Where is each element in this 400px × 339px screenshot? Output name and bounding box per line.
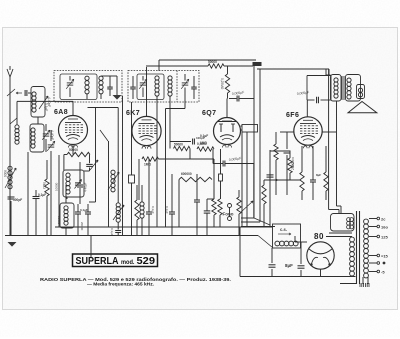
svg-text:500pF: 500pF [13,198,22,202]
svg-text:6Q7: 6Q7 [202,110,216,117]
svg-text:50000: 50000 [69,148,78,152]
svg-text:16o: 16o [381,224,388,229]
svg-text:0,1µF: 0,1µF [165,206,169,214]
svg-text:125: 125 [381,234,388,239]
svg-text:Fono: Fono [223,212,234,217]
svg-text:50000: 50000 [208,60,217,64]
svg-text:0,1µF: 0,1µF [44,103,48,111]
svg-text:0,1µF: 0,1µF [80,208,88,212]
svg-text:4-40pF: 4-40pF [84,182,88,192]
svg-text:8µF: 8µF [285,263,293,268]
svg-text:c.s.: c.s. [280,227,287,232]
svg-text:8µF: 8µF [316,173,321,177]
svg-text:=15: =15 [381,253,389,258]
svg-text:0,1µF: 0,1µF [110,228,114,236]
svg-text:mod.: mod. [121,259,135,266]
svg-text:10000: 10000 [57,216,61,225]
svg-text:1MΩ: 1MΩ [144,163,151,167]
svg-text:6F6: 6F6 [286,112,299,119]
svg-text:600000: 600000 [181,172,192,176]
svg-text:6K7: 6K7 [126,110,140,117]
svg-text:80: 80 [314,232,324,241]
svg-text:10000: 10000 [55,182,59,191]
svg-text:529: 529 [137,255,156,267]
svg-text:20000: 20000 [80,222,84,231]
svg-text:0,1µF: 0,1µF [38,193,46,197]
svg-text:0,25MΩ: 0,25MΩ [220,78,224,90]
svg-text:9000: 9000 [3,170,7,177]
svg-text:0,005µF: 0,005µF [291,157,295,168]
svg-text:50000: 50000 [174,143,183,147]
svg-text:2c: 2c [381,216,386,221]
svg-text:— Media frequenza: 465 kHz.: — Media frequenza: 465 kHz. [87,281,154,287]
svg-text:0,1µF: 0,1µF [200,134,208,138]
svg-text:0,1µF: 0,1µF [151,206,155,214]
svg-text:SUPERLA: SUPERLA [76,255,119,267]
svg-text:5MΩ: 5MΩ [42,182,46,189]
svg-text:0,5MΩ: 0,5MΩ [197,142,207,146]
svg-text:6A8: 6A8 [54,109,68,116]
